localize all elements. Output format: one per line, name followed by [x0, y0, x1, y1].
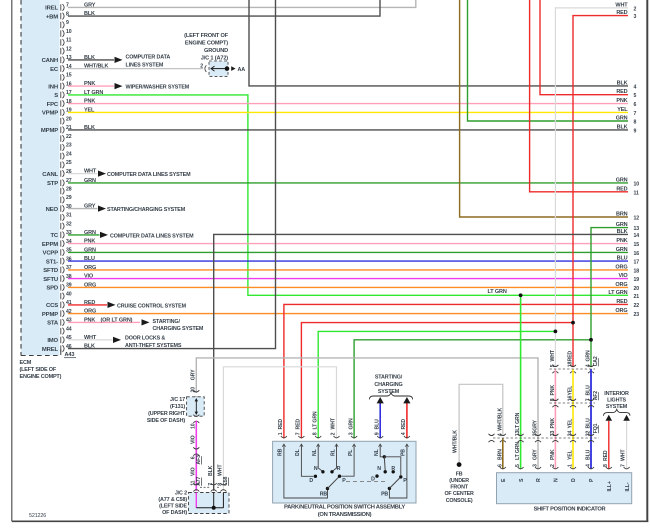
connector AF3 pin 6 on VIO wire [191, 447, 202, 476]
svg-text:WHT: WHT [218, 464, 224, 476]
svg-text:PNK: PNK [550, 418, 556, 429]
svg-text:7: 7 [634, 111, 637, 117]
svg-text:IMO: IMO [47, 338, 58, 344]
svg-text:PNK: PNK [84, 99, 95, 105]
svg-text:ENGINE COMPT): ENGINE COMPT) [185, 41, 228, 47]
ECM pin 10 [61, 29, 72, 37]
wire S pin17 LT GRN long run to right edge pin 21 [68, 90, 628, 295]
ECM pin 7 IREL [45, 3, 69, 12]
ECM pin 27 STP [47, 178, 72, 187]
svg-text:4: 4 [586, 464, 592, 467]
ECM pin 20 [61, 116, 72, 124]
svg-text:PNK: PNK [84, 81, 95, 87]
wire SPD pin39 ORG to right edge pin 20 [68, 282, 628, 288]
svg-text:RED: RED [568, 351, 574, 362]
svg-text:STARTING/: STARTING/ [375, 375, 403, 381]
shift indicator column E : WHT/BLK then BRN pin 6 [497, 408, 506, 469]
ECM pin 21 MPMP [41, 125, 72, 134]
wire VIO J/C 17 pin 10 down to J/C 2 pin 11 [191, 421, 197, 491]
ECM pin 24 [61, 151, 72, 159]
svg-text:VIO: VIO [191, 467, 197, 476]
labels BLK / WHT on J/C 2 feeds [208, 464, 224, 476]
svg-text:WHT/BLK: WHT/BLK [497, 408, 503, 431]
J/C 2 (A77 & C58) junction block [158, 491, 229, 517]
ECM pin 39 SPD [46, 283, 71, 292]
svg-text:WHT: WHT [621, 449, 627, 461]
svg-text:29: 29 [66, 195, 72, 201]
svg-text:BLK: BLK [84, 344, 95, 350]
svg-text:D: D [571, 478, 577, 482]
ECM pin 23 [61, 143, 72, 151]
svg-text:LINES SYSTEM: LINES SYSTEM [126, 63, 164, 69]
wire RED from top edge to right edge pin 11 [530, 0, 628, 192]
svg-text:R: R [337, 466, 341, 472]
ECM pin 29 [61, 195, 72, 203]
svg-text:WHT: WHT [84, 335, 97, 341]
svg-text:VCPP: VCPP [43, 251, 59, 257]
svg-text:4: 4 [634, 84, 637, 90]
ECM pin 17 S [54, 90, 72, 99]
svg-text:RL: RL [330, 448, 336, 456]
svg-text:4: 4 [401, 432, 407, 435]
svg-text:COMPUTER DATA: COMPUTER DATA [126, 54, 171, 60]
svg-text:GRY: GRY [84, 2, 96, 8]
svg-text:YEL: YEL [84, 107, 95, 113]
svg-text:2: 2 [550, 464, 556, 467]
ECM pin 33 TC [50, 230, 71, 239]
park/neutral mechanical link (dashed) [346, 481, 388, 483]
svg-text:A43: A43 [65, 352, 75, 358]
wire IMO pin45 WHT w/ arrow DOOR LOCKS & ANTI-THEFT SYSTEMS [68, 335, 182, 349]
wire BLK right edge pin 14 down to J/C 2 pin 7 [214, 234, 628, 490]
svg-text:GROUND: GROUND [204, 48, 228, 54]
svg-text:FPC: FPC [47, 102, 59, 108]
svg-text:ILL+: ILL+ [607, 481, 613, 491]
svg-text:BLK: BLK [84, 11, 95, 17]
svg-text:LT GRN: LT GRN [488, 289, 507, 295]
svg-text:IREL: IREL [45, 6, 58, 12]
svg-text:(UNDER: (UNDER [449, 478, 469, 484]
svg-text:14: 14 [634, 233, 640, 239]
wire LT GRN park/neutral NL pin8 to junction on N column [318, 331, 555, 438]
ECM pin 28 [61, 186, 72, 194]
ECM pin 12 [61, 46, 72, 54]
svg-text:ILL-: ILL- [625, 482, 631, 491]
svg-text:PPMP: PPMP [42, 312, 58, 318]
svg-text:RED: RED [84, 300, 95, 306]
svg-text:LT GRN: LT GRN [608, 290, 627, 296]
svg-text:BRN: BRN [616, 212, 628, 218]
svg-text:COMPUTER DATA LINES SYSTEM: COMPUTER DATA LINES SYSTEM [107, 172, 191, 178]
svg-text:31: 31 [66, 213, 72, 219]
ECM pin 38 SFTU [43, 274, 72, 283]
svg-text:RED: RED [278, 419, 284, 430]
wire PPMP pin42 ORG to right edge pin 23 [68, 309, 628, 315]
wire MREL pin46 BLK up to top edge [68, 0, 276, 350]
wire EPPM pin34 PNK to right edge pin 15 [68, 239, 628, 245]
ECM pin 25 [61, 160, 72, 168]
ECM pin 15 [61, 73, 72, 81]
shift position indicator box [497, 473, 632, 504]
ECM pin 19 VPMP [42, 108, 72, 117]
wire BLK from top edge to right edge pin 4 [249, 0, 628, 86]
svg-text:2: 2 [634, 6, 637, 12]
svg-text:1: 1 [278, 432, 284, 435]
svg-text:INTERIOR: INTERIOR [604, 391, 629, 397]
svg-text:17: 17 [634, 260, 640, 266]
wire RED from top edge to right edge pin 5 [540, 0, 628, 95]
svg-text:24: 24 [66, 151, 72, 157]
svg-text:19: 19 [634, 277, 640, 283]
svg-text:YEL: YEL [617, 107, 628, 113]
svg-text:1: 1 [568, 464, 574, 467]
svg-text:BLK: BLK [84, 55, 95, 61]
svg-text:ENGINE COMPT): ENGINE COMPT) [20, 374, 62, 380]
wire CANL pin26 WHT w/ arrow COMPUTER DATA LINES SYSTEM [68, 169, 191, 179]
wire GRY shift indicator R feed to J/C 17 pin 20 [196, 358, 538, 469]
svg-text:CANL: CANL [42, 172, 58, 178]
wire INH pin16 PNK w/ arrow WIPER/WASHER SYSTEM [68, 81, 190, 91]
svg-text:BLU: BLU [586, 449, 592, 460]
svg-text:R: R [391, 466, 395, 472]
wire VCPP pin35 GRN to right edge pin 16 [68, 247, 628, 253]
wire CANH pin13 BLK w/ arrow COMPUTER DATA LINES SYSTEM [68, 54, 170, 68]
svg-text:LT GRN: LT GRN [84, 90, 103, 96]
wire RED right edge pin 3 down to junction on D column [573, 16, 628, 323]
svg-text:11: 11 [634, 190, 639, 196]
svg-text:SIDE OF DASH): SIDE OF DASH) [147, 418, 186, 424]
svg-text:WHT/BLK: WHT/BLK [453, 430, 459, 453]
wire BLU park/neutral NL pin9 arrow to STARTING/CHARGING SYSTEM [374, 397, 383, 439]
wire VPMP pin19 YEL to right edge pin 7 [68, 107, 628, 113]
ECM pin 41 CCS [46, 300, 72, 309]
svg-text:BLU: BLU [84, 256, 95, 262]
svg-text:N: N [377, 466, 381, 472]
svg-text:32: 32 [66, 221, 72, 227]
wire WHT/BLK from ground FB to shift indicator E column [453, 384, 503, 463]
svg-text:YEL: YEL [568, 418, 574, 429]
ECM pin 42 PPMP [42, 309, 72, 318]
wire RED shift indicator ILL+ pin 8 arrow to INTERIOR LIGHTS SYSTEM [603, 415, 612, 469]
svg-text:S: S [54, 93, 58, 99]
wire IREL pin7 GRY to top edge [68, 0, 416, 8]
svg-text:N: N [554, 478, 560, 482]
svg-text:PB: PB [401, 449, 407, 456]
svg-text:STP: STP [47, 181, 58, 187]
svg-text:WHT: WHT [615, 2, 628, 8]
svg-text:RB: RB [320, 492, 328, 498]
svg-text:20: 20 [634, 286, 640, 292]
svg-text:MREL: MREL [42, 347, 59, 353]
dashed links of in-line connector rows [489, 369, 600, 442]
svg-text:VIO: VIO [84, 274, 94, 280]
connector A77 pin 11 / C58 pins 7,8 at J/C 2 [191, 476, 230, 491]
svg-text:WHT: WHT [331, 417, 337, 429]
svg-text:PNK: PNK [616, 238, 627, 244]
svg-text:9: 9 [374, 432, 380, 435]
svg-text:BLU: BLU [617, 256, 628, 262]
svg-text:RED: RED [296, 419, 302, 430]
svg-text:(OR LT GRN): (OR LT GRN) [101, 317, 133, 323]
svg-text:OF CENTER: OF CENTER [444, 491, 474, 497]
svg-text:PNK: PNK [84, 239, 95, 245]
shift indicator column D : RED / YEL pin 1 [568, 321, 577, 469]
svg-text:ORG: ORG [84, 282, 96, 288]
svg-text:6: 6 [497, 464, 503, 467]
svg-text:YEL: YEL [568, 449, 574, 460]
svg-text:A77: A77 [196, 476, 202, 485]
ECM pin 9 [61, 20, 69, 28]
ECM caption [20, 360, 62, 380]
svg-text:GRN: GRN [84, 230, 96, 236]
svg-text:RB: RB [278, 448, 284, 456]
ECM pin 16 INH [48, 81, 71, 90]
svg-text:40: 40 [66, 291, 72, 297]
svg-text:(A77 & C58): (A77 & C58) [158, 497, 187, 503]
svg-text:GRY: GRY [191, 369, 197, 380]
svg-text:10: 10 [634, 181, 640, 187]
ground point FB (under front of center console) [444, 462, 474, 504]
wire GRN park/neutral PL pin3 to junction on P column [354, 340, 591, 439]
shift indicator column R : GRY pin 3 [533, 420, 542, 469]
svg-text:WIPER/WASHER SYSTEM: WIPER/WASHER SYSTEM [126, 85, 190, 91]
svg-text:6: 6 [634, 102, 637, 108]
ECM pin 46 MREL [42, 344, 72, 353]
park/neutral caption [284, 505, 405, 518]
svg-text:LT GRN: LT GRN [515, 412, 521, 430]
svg-text:RED: RED [616, 89, 627, 95]
svg-text:PL: PL [348, 449, 354, 456]
svg-text:11: 11 [66, 38, 71, 44]
shift indicator column S : LT GRN pin 5 [515, 293, 524, 469]
svg-text:44: 44 [66, 326, 72, 332]
park/neutral internal pin names RB DL NL RL PL NL PB [278, 448, 407, 456]
svg-text:N: N [314, 466, 318, 472]
svg-text:16: 16 [634, 251, 640, 257]
ECM pin 43 STA [47, 318, 72, 327]
wire RED park/neutral PB pin4 arrow to STARTING/CHARGING SYSTEM [401, 397, 410, 439]
svg-text:(UPPER RIGHT: (UPPER RIGHT [148, 411, 186, 417]
label INTERIOR LIGHTS SYSTEM with brace [604, 391, 631, 416]
park/neutral left switch contacts [284, 444, 354, 498]
ECM pin 13 CANH [42, 55, 72, 64]
svg-text:DL: DL [295, 448, 301, 456]
svg-text:SYSTEM: SYSTEM [378, 389, 400, 395]
svg-text:BRN: BRN [497, 449, 503, 460]
svg-text:BLU: BLU [586, 385, 592, 396]
svg-text:J/C 2: J/C 2 [175, 491, 187, 497]
svg-text:+BM: +BM [46, 14, 58, 20]
svg-text:CONSOLE): CONSOLE) [446, 498, 473, 504]
svg-text:GRN: GRN [616, 116, 628, 122]
svg-text:STARTING/CHARGING SYSTEM: STARTING/CHARGING SYSTEM [107, 207, 186, 213]
svg-text:9: 9 [66, 20, 69, 26]
svg-text:PNK: PNK [550, 385, 556, 396]
wire STP pin27 GRN to right edge pin 10 [68, 178, 628, 184]
svg-text:VPMP: VPMP [42, 111, 58, 117]
svg-text:CRUISE CONTROL SYSTEM: CRUISE CONTROL SYSTEM [117, 303, 187, 309]
wire GRN from top edge to right edge pin 8 [468, 0, 629, 121]
svg-text:2: 2 [331, 432, 337, 435]
svg-text:LT GRN: LT GRN [515, 442, 521, 460]
J/C 17 (F131) junction block [147, 369, 204, 424]
svg-text:(F131): (F131) [170, 404, 185, 410]
ECM pin 11 [61, 38, 72, 46]
svg-text:(ON TRANSMISSION): (ON TRANSMISSION) [318, 512, 372, 518]
park/neutral box pin entries [278, 411, 410, 450]
svg-text:RED: RED [603, 450, 609, 461]
svg-text:ORG: ORG [615, 282, 627, 288]
svg-text:GRN: GRN [84, 178, 96, 184]
ECM pin 18 FPC [47, 99, 72, 108]
svg-text:18: 18 [634, 268, 640, 274]
svg-text:8: 8 [312, 432, 318, 435]
svg-text:AA: AA [238, 67, 246, 73]
wire EC pin14 WHT/BLK to J/C 1 [68, 64, 203, 70]
svg-text:GRN: GRN [616, 222, 628, 228]
svg-text:3: 3 [634, 14, 637, 20]
ECM pin 30 NEO [46, 204, 72, 213]
svg-text:8: 8 [634, 120, 637, 126]
svg-text:7: 7 [208, 483, 214, 486]
svg-text:J/C 17: J/C 17 [170, 397, 185, 403]
svg-text:3: 3 [348, 432, 354, 435]
wire FPC pin18 PNK to right edge pin 6 [68, 99, 628, 105]
svg-text:20: 20 [66, 116, 72, 122]
svg-text:RED: RED [616, 299, 627, 305]
svg-text:(LEFT FRONT OF: (LEFT FRONT OF [184, 33, 229, 39]
svg-text:RED: RED [401, 419, 407, 430]
ECM pin 36 ST1- [46, 256, 72, 265]
wire WHT shift indicator ILL- pin 7 arrow to INTERIOR LIGHTS SYSTEM [621, 415, 630, 469]
ECM pin 14 EC [50, 64, 72, 73]
svg-text:23: 23 [66, 143, 72, 149]
svg-text:ORG: ORG [84, 265, 96, 271]
svg-text:BLU: BLU [374, 419, 380, 430]
svg-text:ORG: ORG [615, 308, 627, 314]
svg-text:2: 2 [200, 63, 203, 69]
svg-text:BLK: BLK [617, 229, 628, 235]
svg-text:21: 21 [634, 294, 640, 300]
ECM pin 35 VCPP [43, 248, 72, 257]
svg-text:10: 10 [191, 423, 197, 429]
svg-text:BLU: BLU [586, 418, 592, 429]
wire WHT right edge pin 2 down to junction on N column [555, 8, 628, 332]
svg-text:9: 9 [634, 128, 637, 134]
shift indicator internal pin names [501, 478, 631, 492]
svg-text:15: 15 [634, 242, 640, 248]
svg-text:FRONT: FRONT [450, 485, 468, 491]
svg-text:STA: STA [47, 321, 59, 327]
svg-text:FB: FB [456, 471, 463, 477]
svg-text:PB: PB [381, 492, 388, 498]
svg-text:PARK/NEUTRAL POSITION SWITCH A: PARK/NEUTRAL POSITION SWITCH ASSEMBLY [284, 505, 405, 511]
wire MPMP pin21 BLK to right edge pin 9 [68, 125, 628, 131]
svg-text:CHARGING SYSTEM: CHARGING SYSTEM [153, 326, 204, 332]
wire RED park/neutral DL pin7 to junction on D column [301, 323, 573, 439]
svg-text:BLK: BLK [208, 465, 214, 476]
ECM pin 32 [61, 221, 72, 229]
svg-text:5: 5 [515, 464, 521, 467]
ECM pin 34 EPPM [42, 239, 72, 248]
svg-text:EPPM: EPPM [42, 242, 58, 248]
svg-text:(LEFT SIDE OF: (LEFT SIDE OF [20, 367, 57, 373]
svg-text:DOOR LOCKS &: DOOR LOCKS & [125, 336, 165, 342]
wire NEO pin30 GRY w/ arrow STARTING/CHARGING SYSTEM [68, 204, 186, 214]
J/C 1 (A72) ground junction block [184, 33, 245, 76]
svg-text:GRY: GRY [533, 420, 539, 431]
svg-text:SHIFT POSITION INDICATOR: SHIFT POSITION INDICATOR [534, 507, 606, 513]
svg-text:SFTD: SFTD [43, 268, 58, 274]
svg-text:D: D [371, 477, 375, 483]
svg-text:ORG: ORG [84, 309, 96, 315]
svg-text:12: 12 [634, 216, 640, 222]
wire ST1- pin36 BLU to right edge pin 17 [68, 256, 628, 262]
svg-text:YEL: YEL [568, 385, 574, 396]
label STARTING/CHARGING SYSTEM with brace [369, 375, 412, 400]
svg-text:NL: NL [374, 448, 380, 456]
ECM pin 45 IMO [47, 335, 71, 344]
svg-text:PNK: PNK [616, 98, 627, 104]
ECM pin 22 [61, 134, 72, 142]
wire SFTU pin38 VIO to right edge pin 19 [68, 274, 628, 280]
wire GRN right edge pin 13 down to junction on P column [591, 228, 628, 340]
svg-text:RED: RED [616, 186, 627, 192]
svg-text:WHT: WHT [84, 169, 97, 175]
wire TC pin33 GRN w/ arrow COMPUTER DATA LINES SYSTEM [68, 230, 194, 240]
svg-text:GRN: GRN [586, 350, 592, 361]
svg-text:COMPUTER DATA LINES SYSTEM: COMPUTER DATA LINES SYSTEM [110, 233, 194, 239]
right edge wire color labels and pin numbers 2-23 [608, 2, 639, 318]
connector label A43 [64, 352, 76, 358]
ECM pin 8 +BM [46, 11, 69, 20]
svg-text:INH: INH [48, 84, 58, 90]
svg-text:NL: NL [312, 448, 318, 456]
svg-text:SFTU: SFTU [43, 277, 58, 283]
svg-text:15: 15 [66, 73, 72, 79]
svg-text:28: 28 [66, 186, 72, 192]
svg-text:WHT/BLK: WHT/BLK [84, 64, 108, 70]
svg-text:3: 3 [533, 464, 539, 467]
svg-text:BLK: BLK [84, 125, 95, 131]
svg-text:MPMP: MPMP [41, 128, 58, 134]
svg-text:PNK: PNK [550, 449, 556, 460]
svg-text:GRY: GRY [84, 204, 96, 210]
svg-text:RED: RED [616, 10, 627, 16]
svg-text:7: 7 [621, 464, 627, 467]
svg-text:C58: C58 [223, 476, 229, 485]
svg-text:12: 12 [66, 46, 72, 52]
svg-text:7: 7 [296, 432, 302, 435]
svg-text:22: 22 [634, 303, 640, 309]
svg-text:(LEFT SIDE: (LEFT SIDE [159, 504, 187, 510]
svg-text:GRN: GRN [84, 247, 96, 253]
svg-text:VIO: VIO [191, 435, 197, 444]
ECM pin 40 [61, 291, 72, 299]
wire WHT park/neutral RL pin2 to J/C 2 pin 8 [223, 367, 336, 491]
svg-text:R: R [536, 478, 542, 482]
ECM pin 31 [61, 213, 72, 221]
svg-text:ST1-: ST1- [46, 259, 58, 265]
svg-text:ECM: ECM [20, 360, 32, 366]
svg-text:GRN: GRN [616, 247, 628, 253]
ECM connector A43 (light blue panel, dashed border) [21, 0, 61, 356]
svg-text:CCS: CCS [46, 303, 58, 309]
ECM pin 37 SFTD [43, 265, 72, 274]
wire +BM pin8 BLK to top edge [68, 0, 380, 17]
wire SFTD pin37 ORG to right edge pin 18 [68, 265, 628, 271]
svg-text:GRN: GRN [348, 418, 354, 429]
